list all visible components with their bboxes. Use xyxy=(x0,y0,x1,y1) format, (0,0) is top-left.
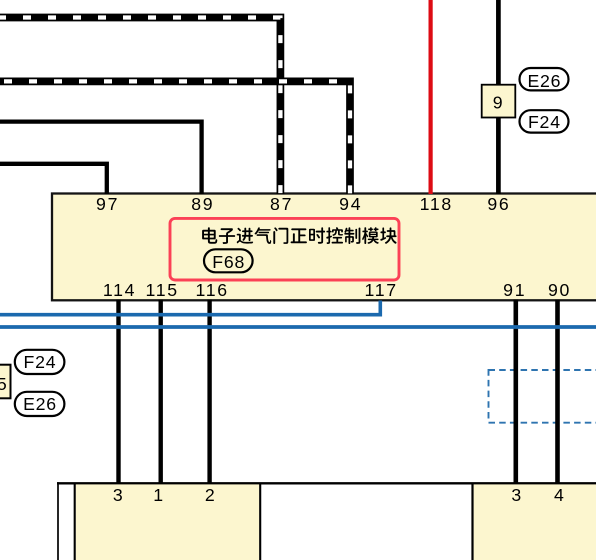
svg-text:F24: F24 xyxy=(24,352,57,372)
partition line x=472.5 xyxy=(471,484,473,560)
blue wire from pin 117 xyxy=(0,301,380,315)
bottom connector cell left (tan) xyxy=(76,484,259,560)
svg-text:91: 91 xyxy=(503,280,526,300)
svg-text:114: 114 xyxy=(103,280,136,300)
fuse 9 box xyxy=(482,85,516,118)
module name 电子进气门正时控制模块 (drawn as paths) xyxy=(202,227,397,244)
connector label F24 (right) xyxy=(520,110,569,132)
svg-text:5: 5 xyxy=(0,374,7,394)
connector label E26 (left) xyxy=(15,392,65,416)
svg-text:1: 1 xyxy=(153,485,163,505)
bottom connector cell right (tan) xyxy=(474,484,596,560)
partition line x=260.2 xyxy=(259,484,261,560)
svg-text:2: 2 xyxy=(205,485,215,505)
svg-text:115: 115 xyxy=(146,280,179,300)
svg-text:3: 3 xyxy=(511,485,521,505)
svg-text:4: 4 xyxy=(554,485,564,505)
wire 114 to pin 3 xyxy=(116,300,120,484)
wire to pin 89 xyxy=(0,122,202,194)
wire 115 to pin 1 xyxy=(158,300,162,484)
F68 oval label xyxy=(204,249,253,272)
svg-text:97: 97 xyxy=(96,194,119,214)
svg-text:89: 89 xyxy=(191,194,214,214)
svg-text:9: 9 xyxy=(493,92,503,112)
wire to pin 97 xyxy=(0,164,107,194)
connector label F24 (left) xyxy=(15,350,65,374)
wire 91 to pin 3 xyxy=(513,300,518,484)
fuse 5 box (left edge, partial) xyxy=(0,365,11,399)
wire 90 to pin 4 xyxy=(555,300,560,484)
bottom connector outer box left edge xyxy=(57,482,59,560)
svg-text:96: 96 xyxy=(487,194,510,214)
blue wire horizontal 2 xyxy=(0,325,596,329)
module F68 box xyxy=(52,194,596,301)
red highlight box xyxy=(170,218,399,280)
bottom connector outer box top edge xyxy=(57,482,596,484)
svg-text:F68: F68 xyxy=(212,252,245,272)
svg-text:F24: F24 xyxy=(528,112,561,132)
wire 116 to pin 2 xyxy=(207,300,211,484)
connector label E26 (top right) xyxy=(520,68,569,91)
wire to pin 94 (black/white dashed) xyxy=(0,81,350,194)
wire to pin 118 (red) xyxy=(429,0,433,194)
svg-text:117: 117 xyxy=(365,280,398,300)
svg-text:90: 90 xyxy=(548,280,571,300)
svg-text:3: 3 xyxy=(113,485,123,505)
svg-text:87: 87 xyxy=(270,194,293,214)
partition line x=74.7 xyxy=(74,484,76,560)
wire to pin 96 xyxy=(496,0,501,194)
svg-text:116: 116 xyxy=(196,280,229,300)
svg-text:94: 94 xyxy=(339,194,362,214)
wire to pin 87 (black/white dashed) xyxy=(0,18,280,195)
svg-text:E26: E26 xyxy=(527,71,561,91)
blue dashed harness box xyxy=(489,370,596,423)
svg-text:E26: E26 xyxy=(23,394,57,414)
svg-text:118: 118 xyxy=(420,194,453,214)
